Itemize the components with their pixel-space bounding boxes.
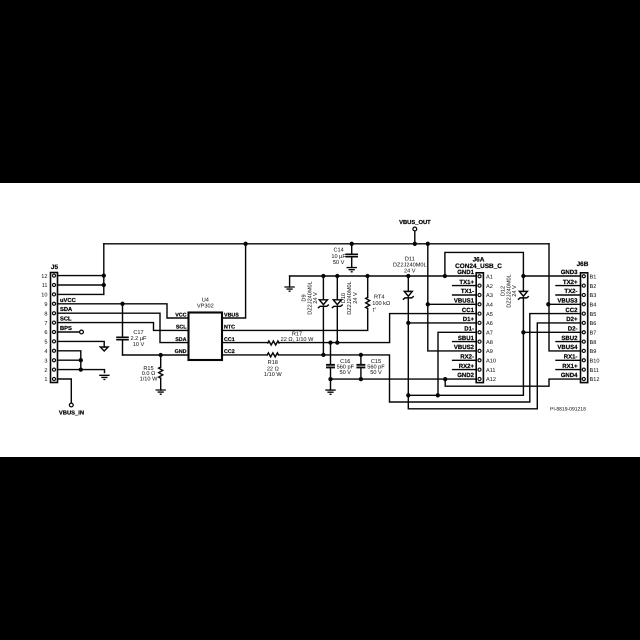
svg-text:RX1-: RX1- — [564, 354, 578, 361]
svg-text:1/10 W: 1/10 W — [140, 376, 158, 383]
svg-text:A5: A5 — [486, 312, 493, 318]
svg-text:GND1: GND1 — [457, 269, 474, 276]
svg-text:BPS: BPS — [60, 325, 72, 332]
svg-text:A2: A2 — [486, 284, 493, 290]
svg-text:t°: t° — [373, 307, 377, 313]
svg-text:D1+: D1+ — [463, 316, 475, 323]
svg-text:10 µF: 10 µF — [331, 254, 346, 260]
svg-text:VBUS1: VBUS1 — [454, 298, 475, 305]
svg-text:RX2+: RX2+ — [459, 363, 475, 370]
svg-text:U4: U4 — [202, 297, 209, 303]
svg-text:VBUS4: VBUS4 — [557, 344, 578, 351]
svg-text:TX1+: TX1+ — [459, 279, 474, 286]
svg-text:SDA: SDA — [60, 306, 73, 313]
svg-text:B3: B3 — [590, 293, 597, 299]
svg-text:SDA: SDA — [175, 337, 186, 343]
svg-text:B8: B8 — [590, 340, 597, 346]
svg-text:9: 9 — [44, 302, 47, 308]
svg-text:B5: B5 — [590, 312, 597, 318]
svg-text:B6: B6 — [590, 321, 597, 327]
svg-text:24 V: 24 V — [404, 268, 416, 274]
svg-text:10: 10 — [41, 293, 47, 299]
svg-text:2: 2 — [44, 368, 47, 374]
svg-text:VBUS_IN: VBUS_IN — [59, 410, 84, 417]
svg-text:A11: A11 — [486, 368, 496, 374]
svg-text:22 Ω, 1/10 W: 22 Ω, 1/10 W — [281, 336, 315, 343]
svg-text:24 V: 24 V — [313, 292, 319, 304]
svg-text:GND3: GND3 — [561, 269, 578, 276]
svg-text:TX2+: TX2+ — [563, 279, 578, 286]
svg-text:B7: B7 — [590, 331, 597, 337]
svg-text:C17: C17 — [133, 330, 143, 336]
svg-text:10 V: 10 V — [133, 342, 145, 348]
svg-text:C14: C14 — [333, 248, 343, 254]
svg-text:24 V: 24 V — [353, 292, 359, 304]
svg-text:1: 1 — [44, 377, 47, 383]
svg-text:1/10 W: 1/10 W — [264, 371, 282, 378]
svg-text:J5: J5 — [51, 264, 59, 271]
svg-text:VBUS: VBUS — [224, 312, 239, 318]
svg-text:A8: A8 — [486, 340, 493, 346]
svg-text:VBUS2: VBUS2 — [454, 344, 475, 351]
svg-text:VBUS_OUT: VBUS_OUT — [399, 219, 431, 226]
svg-text:7: 7 — [44, 321, 47, 327]
svg-text:VBUS3: VBUS3 — [557, 298, 578, 305]
svg-text:A6: A6 — [486, 321, 493, 327]
svg-text:A9: A9 — [486, 349, 493, 355]
svg-text:CC1: CC1 — [462, 307, 475, 314]
svg-text:D2+: D2+ — [566, 316, 578, 323]
svg-text:CON24_USB_C: CON24_USB_C — [455, 263, 502, 270]
svg-text:GND2: GND2 — [457, 372, 474, 379]
svg-text:A7: A7 — [486, 331, 493, 337]
svg-text:3: 3 — [44, 358, 47, 364]
svg-text:100 kΩ: 100 kΩ — [372, 300, 390, 307]
svg-text:R18: R18 — [268, 360, 278, 366]
svg-text:CC2: CC2 — [224, 349, 235, 355]
svg-text:A12: A12 — [486, 377, 496, 383]
svg-text:TX1-: TX1- — [461, 288, 474, 295]
svg-text:B2: B2 — [590, 284, 597, 290]
svg-text:6: 6 — [44, 330, 47, 336]
svg-text:TX2-: TX2- — [564, 288, 577, 295]
svg-text:VP302: VP302 — [197, 304, 214, 310]
svg-text:A4: A4 — [486, 303, 493, 309]
svg-text:VCC: VCC — [175, 312, 186, 318]
svg-text:B1: B1 — [590, 275, 597, 281]
svg-text:PI-8819-091218: PI-8819-091218 — [550, 407, 586, 413]
svg-text:CC2: CC2 — [565, 307, 578, 314]
svg-text:8: 8 — [44, 311, 47, 317]
svg-text:CC1: CC1 — [224, 337, 235, 343]
svg-text:NTC: NTC — [224, 325, 235, 331]
svg-text:J6B: J6B — [577, 261, 589, 268]
svg-text:SBU2: SBU2 — [561, 335, 578, 342]
svg-text:RX1+: RX1+ — [562, 363, 578, 370]
svg-text:D1-: D1- — [464, 326, 474, 333]
svg-text:SBU1: SBU1 — [458, 335, 475, 342]
svg-text:24 V: 24 V — [512, 285, 518, 297]
svg-text:RT4: RT4 — [374, 294, 384, 300]
svg-text:50 V: 50 V — [370, 370, 382, 376]
svg-text:A10: A10 — [486, 359, 496, 365]
svg-text:GND4: GND4 — [561, 372, 578, 379]
svg-text:11: 11 — [42, 283, 48, 289]
svg-text:50 V: 50 V — [333, 260, 345, 266]
svg-text:B10: B10 — [590, 359, 600, 365]
svg-text:B12: B12 — [590, 377, 600, 383]
svg-text:RX2-: RX2- — [460, 354, 474, 361]
svg-text:A3: A3 — [486, 293, 493, 299]
svg-text:SCL: SCL — [176, 325, 187, 331]
svg-text:B9: B9 — [590, 349, 597, 355]
svg-text:A1: A1 — [486, 275, 493, 281]
svg-text:4: 4 — [44, 349, 47, 355]
svg-text:D2-: D2- — [568, 326, 578, 333]
svg-text:5: 5 — [44, 340, 47, 346]
svg-text:GND: GND — [175, 349, 187, 355]
svg-text:uVCC: uVCC — [60, 297, 77, 304]
svg-text:12: 12 — [41, 274, 47, 280]
svg-text:SCL: SCL — [60, 316, 72, 323]
svg-text:50 V: 50 V — [340, 370, 352, 376]
svg-text:B11: B11 — [590, 368, 600, 374]
svg-text:B4: B4 — [590, 303, 597, 309]
